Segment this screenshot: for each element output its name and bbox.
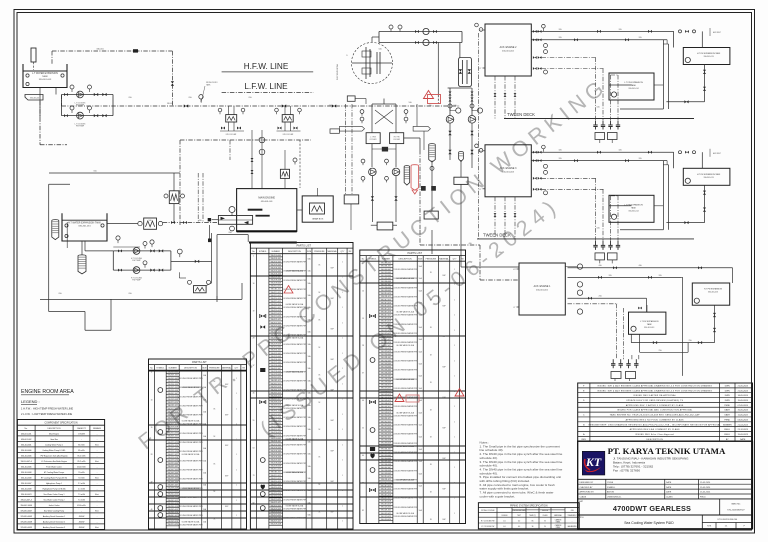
svg-text:H.T WATER EXPANSION TANK: H.T WATER EXPANSION TANK [68,221,101,224]
svg-text:28: 28 [362,345,364,347]
svg-text:37: 37 [253,365,255,367]
svg-text:330-307-007: 330-307-007 [381,284,391,286]
svg-text:SGP: SGP [225,384,228,386]
svg-text:330-332-002: 330-332-002 [381,360,391,362]
svg-text:COOLING FRESH WATER PIPE: COOLING FRESH WATER PIPE [282,315,308,318]
svg-text:4500 m3/h: 4500 m3/h [77,505,86,507]
svg-text:APPROVED REV.0 AS COMMENT BY C: APPROVED REV.0 AS COMMENT BY CLASS [630,428,680,431]
svg-text:330-333-003: 330-333-003 [167,472,177,474]
svg-text:330-312-012: 330-312-012 [381,299,391,301]
svg-text:330-329-029: 330-329-029 [270,344,280,346]
svg-text:TEST: TEST [517,515,521,517]
svg-text:330-344-014: 330-344-014 [167,506,177,508]
svg-text:330-301-003: 330-301-003 [39,79,52,81]
svg-text:GLOBE VALVE 5K-50A: GLOBE VALVE 5K-50A [286,370,304,373]
svg-text:1: 1 [454,406,455,408]
svg-text:1: 1 [342,383,343,385]
svg-text:GLOBE VALVE 5K-50A: GLOBE VALVE 5K-50A [396,411,414,414]
svg-text:330-351-021: 330-351-021 [381,418,391,420]
svg-text:330-306-006: 330-306-006 [381,464,391,466]
svg-text:330-349-019: 330-349-019 [167,521,177,523]
title block: outer frame [578,441,753,529]
svg-text:330-336-006: 330-336-006 [270,365,280,367]
svg-text:37: 37 [362,373,364,375]
svg-text:COOLING FRESH WATER PIPE: COOLING FRESH WATER PIPE [282,343,308,346]
svg-text:DWN: DWN [725,400,730,402]
svg-text:85.2 m3/h: 85.2 m3/h [78,461,86,463]
svg-text:GEAR BOX: GEAR BOX [312,218,324,221]
svg-text:330-300-000: 330-300-000 [381,263,391,265]
svg-text:GLOBE VALVE 5K-50A: GLOBE VALVE 5K-50A [182,386,200,389]
svg-text:1: 1 [342,399,343,401]
svg-text:330-357-027: 330-357-027 [381,437,391,439]
box: central fresh water generator [347,96,355,101]
tank: L.T water expansion tank 330-301-003 [23,64,67,88]
svg-text:PARTS LIST: PARTS LIST [407,251,422,255]
pipe: L.F.W. main line [62,105,461,107]
svg-text:APPROVED REV. 2 AFTER 3 COMMEN: APPROVED REV. 2 AFTER 3 COMMENT BY CLASS [626,404,684,407]
svg-text:370-030-0033: 370-030-0033 [20,527,31,529]
svg-text:330-337-007: 330-337-007 [167,485,177,487]
svg-text:1: 1 [253,255,254,257]
svg-text:TWEEN DECK: TWEEN DECK [483,232,511,237]
svg-text:Elect: Elect [95,476,99,479]
pipe: bottom long return run [40,298,242,300]
pipe: AUX1 to H.T tank 3 [568,267,733,269]
svg-text:330-314-014: 330-314-014 [381,305,391,307]
svg-text:82: 82 [253,502,255,504]
svg-text:330-309-009: 330-309-009 [167,399,177,401]
svg-text:330-339-009: 330-339-009 [167,491,177,493]
svg-text:H.T FW EXPANSION TANK: H.T FW EXPANSION TANK [697,52,721,55]
svg-text:1: 1 [454,498,455,500]
svg-text:46: 46 [253,393,255,395]
svg-text:SGP: SGP [330,329,333,331]
table: parts list C number column entries [379,263,393,265]
svg-text:COOLING FRESH WATER PIPE: COOLING FRESH WATER PIPE [282,352,308,355]
svg-text:330-316-016: 330-316-016 [381,311,391,313]
tank: H.T FW EXPANSION 330-301-013 [692,283,729,305]
svg-text:330-308-008: 330-308-008 [270,280,280,282]
svg-text:F.W COOLER: F.W COOLER [226,134,237,136]
svg-text:PARTS LIST: PARTS LIST [296,244,311,248]
svg-text:SGP: SGP [225,476,228,478]
svg-text:330-301-013: 330-301-013 [703,177,713,179]
svg-text:SGP: SGP [330,451,333,453]
svg-text:AUX. ENGINE 1: AUX. ENGINE 1 [534,285,551,288]
svg-text:330-321-021: 330-321-021 [270,319,280,321]
svg-text:SGP: SGP [330,359,333,361]
svg-text:COOLING FRESH WATER PIPE: COOLING FRESH WATER PIPE [393,332,419,335]
box: AUX. ENGINE 1 430-001-001 [519,263,565,315]
svg-text:330-325-025: 330-325-025 [167,448,177,450]
valve pairs at engine outlet HT [533,30,537,33]
svg-text:HT Cooling Water Pumps (M / E): HT Cooling Water Pumps (M / E) [41,476,68,479]
svg-text:1: 1 [342,490,343,492]
svg-text:NUMBER: NUMBER [169,368,178,370]
svg-text:DWN: DWN [725,385,730,387]
svg-text:330-311-011: 330-311-011 [381,479,391,481]
svg-text:330-304-004: 330-304-004 [167,384,177,386]
svg-text:330-303-003: 330-303-003 [167,381,177,383]
svg-text:COOLING FRESH WATER PIPE: COOLING FRESH WATER PIPE [393,405,419,408]
svg-text:28: 28 [151,454,153,456]
svg-text:GLOBE VALVE 5K-50A: GLOBE VALVE 5K-50A [286,303,304,306]
svg-text:TANK: TANK [631,84,637,87]
svg-text:PEND: PEND [724,405,730,407]
svg-text:330-307-007: 330-307-007 [270,460,280,462]
svg-text:Hydrophore Pump LO M (M): Hydrophore Pump LO M (M) [43,488,66,490]
gauges at engine top-left corner [475,23,479,27]
svg-text:NUMBER: NUMBER [272,251,281,253]
svg-text:330-16-007-4: 330-16-007-4 [21,499,32,501]
thermostatic valve M-box above engine [280,169,289,178]
svg-text:330-301-001: 330-301-001 [381,266,391,268]
svg-text:4700DWT GEARLESS: 4700DWT GEARLESS [613,504,691,513]
svg-text:Elect: Elect [95,460,99,463]
svg-text:FIELD: FIELD [700,497,706,499]
svg-text:330-346-016: 330-346-016 [270,395,280,397]
svg-text:330-339-009: 330-339-009 [381,382,391,384]
svg-text:330-322-022: 330-322-022 [270,505,280,507]
svg-text:MATERIAL: MATERIAL [439,258,448,261]
svg-text:COOLING FRESH WATER PIPE: COOLING FRESH WATER PIPE [178,395,204,398]
svg-text:Fax : (0778) 327690: Fax : (0778) 327690 [613,468,640,472]
svg-text:330-314-014: 330-314-014 [167,414,177,416]
svg-text:COOLING FRESH WATER PIPE: COOLING FRESH WATER PIPE [178,377,204,380]
svg-text:330-304-004: 330-304-004 [270,267,280,269]
svg-text:6.0: 6.0 [518,521,520,523]
svg-text:CLASS: CLASS [666,496,673,499]
riser racetrack loop left of AUX engine 2 [458,60,460,84]
svg-text:Sea Water Cooler Pump 1: Sea Water Cooler Pump 1 [44,493,65,496]
svg-text:F.W PUMP: F.W PUMP [132,260,141,262]
svg-text:GLOBE VALVE 5K-50A: GLOBE VALVE 5K-50A [396,277,414,280]
svg-text:COOLING FRESH WATER PIPE: COOLING FRESH WATER PIPE [178,505,204,508]
svg-text:330-352-022: 330-352-022 [381,421,391,423]
svg-text:KTU-2023/188-F027: KTU-2023/188-F027 [727,510,744,512]
svg-text:SGP: SGP [225,506,228,508]
pipe: tank outlet drops [39,88,41,118]
svg-text:1: 1 [342,505,343,507]
svg-text:430-001-003: 430-001-003 [502,171,515,173]
pump group: H.T cooling F.W pumps manifold [113,250,171,252]
svg-text:330-327-027: 330-327-027 [270,338,280,340]
svg-text:Hydrophore Pump 1: Hydrophore Pump 1 [46,483,62,485]
svg-text:330-345-015: 330-345-015 [381,400,391,402]
svg-text:NTS: NTS [707,526,712,528]
valves on L.F.W. main line [184,104,188,107]
svg-text:DESCRIPTION: DESCRIPTION [48,428,62,430]
svg-text:64: 64 [362,455,364,457]
pipe: parallel feed pair [662,161,664,230]
pipe: ballast pump drops [449,123,451,160]
pipe: L.T tank connections [609,205,632,207]
fittings before H.T tank inlet [679,151,682,154]
gauges on generator loop [389,25,393,29]
pipe: long dash-dot vertical to tween decks [478,33,480,239]
flange connections below deck 1 [595,121,597,126]
svg-text:11-05-2024: 11-05-2024 [738,415,749,417]
svg-text:330-347-017: 330-347-017 [381,406,391,408]
svg-text:55: 55 [253,420,255,422]
svg-text:COOLING FRESH WATER PIPE: COOLING FRESH WATER PIPE [393,387,419,390]
svg-text:330-308-008: 330-308-008 [381,287,391,289]
svg-text:330-340-010: 330-340-010 [381,385,391,387]
svg-text:1: 1 [363,263,364,265]
svg-text:330-308-008: 330-308-008 [381,470,391,472]
svg-text:330-324-024: 330-324-024 [167,445,177,447]
tank: H.T water expansion tank 330-301-015 [62,213,107,241]
svg-text:330-326-026: 330-326-026 [381,342,391,344]
svg-text:330-318-018: 330-318-018 [270,493,280,495]
svg-text:330-335-005: 330-335-005 [381,369,391,371]
svg-text:TEMP (C): TEMP (C) [529,515,536,517]
pump 330-302-003 (H.T No.1) [133,248,140,255]
svg-text:Cooling Water Pump 1: Cooling Water Pump 1 [45,443,63,446]
svg-text:21-04-2024: 21-04-2024 [738,424,749,426]
svg-text:COOLING FRESH WATER PIPE: COOLING FRESH WATER PIPE [393,414,419,417]
svg-text:SYAIFUL: SYAIFUL [607,486,616,489]
pipe: bottom return to engine [666,101,704,103]
svg-text:330-16-0008: 330-16-0008 [21,477,31,479]
svg-text:COOLING FRESH WATER PIPE: COOLING FRESH WATER PIPE [282,398,308,401]
svg-text:330-315-015: 330-315-015 [270,301,280,303]
svg-text:330-310-010: 330-310-010 [270,286,280,288]
svg-text:COOLING FRESH WATER PIPE: COOLING FRESH WATER PIPE [393,359,419,362]
svg-text:330-328-028: 330-328-028 [270,341,280,343]
svg-text:82: 82 [362,510,364,512]
svg-text:330-308-008: 330-308-008 [270,463,280,465]
fittings before H.T tank inlet [679,30,682,33]
svg-text:ISSUED: M/E & AUX ENGINES CLAS: ISSUED: M/E & AUX ENGINES CLASS APPROVAL… [597,384,712,387]
tank: H.T FW EXPANSION TANK 330-301-013 [683,168,730,185]
svg-text:COOLING FRESH WATER PIPE: COOLING FRESH WATER PIPE [282,361,308,364]
svg-text:330-334-004: 330-334-004 [167,475,177,477]
svg-text:SYMBOL: SYMBOL [259,251,267,253]
svg-text:1: 1 [454,330,455,332]
svg-text:LR/BKI/DNV-GL: LR/BKI/DNV-GL [607,497,622,499]
svg-text:L.T WATER EXPANSION: L.T WATER EXPANSION [32,72,58,75]
svg-text:SGP: SGP [330,298,333,300]
svg-text:SGP: SGP [442,489,445,491]
table: parts list C section dividers [360,282,466,284]
svg-text:COOLING FRESH WATER PIPE: COOLING FRESH WATER PIPE [393,268,419,271]
svg-text:7.5 m3/h: 7.5 m3/h [78,499,85,501]
pump group: L.T cooling F.W pumps manifold [62,94,114,96]
heat exchanger M-box right of tank [144,218,157,229]
valve: SDNR on branch 2 [423,39,429,45]
svg-text:330-318-018: 330-318-018 [270,310,280,312]
svg-text:PRESSURE: PRESSURE [314,251,325,253]
svg-text:SGP: SGP [225,445,228,447]
pipe: dash-dot drops to flanges group 3 [616,304,618,359]
svg-text:430-001-001: 430-001-001 [536,290,549,292]
svg-text:330-349-019: 330-349-019 [381,412,391,414]
svg-text:330-356-026: 330-356-026 [381,433,391,435]
svg-text:COOLING FRESH WATER PIPE: COOLING FRESH WATER PIPE [393,323,419,326]
svg-text:SGP: SGP [442,397,445,399]
svg-text:TANK: TANK [647,323,653,326]
svg-text:SGP: SGP [442,458,445,460]
svg-text:1: 1 [454,391,455,393]
svg-text:SGP: SGP [442,275,445,277]
svg-text:H.T FW EXPANSION: H.T FW EXPANSION [704,288,723,291]
tween deck line 2 [477,238,694,240]
svg-text:330-318-018: 330-318-018 [381,318,391,320]
pipe: drops below AUX engine 2 to deck [494,76,496,119]
box: thermometer pocket unit [344,195,359,204]
svg-text:85: 85 [532,521,534,523]
pipe: dash-dot drops to tween deck flanges [595,58,597,121]
pipe: tank vent riser [51,51,53,64]
svg-text:330-16-0008: 330-16-0008 [21,472,31,474]
svg-text:AIR VENT: AIR VENT [713,31,721,34]
svg-text:PEND: PEND [724,419,730,421]
svg-text:APPROVED REV.2 NO FOOD COMMENT: APPROVED REV.2 NO FOOD COMMENT BY CLASS [626,418,684,421]
svg-text:330-302-002: 330-302-002 [167,378,177,380]
svg-text:330-300-000: 330-300-000 [270,255,280,257]
svg-text:330-337-007: 330-337-007 [270,368,280,370]
valve squares [421,186,426,191]
svg-text:330-355-025: 330-355-025 [381,430,391,432]
svg-text:430-001-002: 430-001-002 [502,51,515,53]
svg-text:330-302-002: 330-302-002 [381,269,391,271]
valve pairs at engine outlet LT [533,177,537,180]
svg-text:GLOBE VALVE 5K-50A: GLOBE VALVE 5K-50A [286,404,304,407]
svg-text:GLOBE VALVE 5K-50A: GLOBE VALVE 5K-50A [396,378,414,381]
gauge on L.F.W. main line [199,95,203,99]
svg-text:330-328-028: 330-328-028 [167,457,177,459]
svg-text:330-324-024: 330-324-024 [270,511,280,513]
svg-text:PIPING SYSTEM: PIPING SYSTEM [481,510,495,512]
svg-text:H.F.W. LINE: H.F.W. LINE [244,62,289,71]
table: parts list C column lines [365,256,367,524]
svg-text:1: 1 [342,322,343,324]
svg-text:330-323-023: 330-323-023 [381,516,391,518]
svg-text:330-313-013: 330-313-013 [167,411,177,413]
svg-text:GLOBE VALVE 5K-50A: GLOBE VALVE 5K-50A [182,520,200,523]
strainer capsule (red revision cloud) [411,165,419,191]
svg-text:YUDHI: YUDHI [607,482,614,484]
title block: company logo KT [582,451,605,475]
svg-text:330-348-018: 330-348-018 [270,402,280,404]
svg-text:Main Engine: Main Engine [49,433,59,435]
svg-text:330-322-022: 330-322-022 [270,322,280,324]
pipe: top L.F.W. dash-dot header run [52,50,172,52]
svg-text:HT Cooling Water Pumps: HT Cooling Water Pumps [44,471,64,474]
svg-text:330-327-027: 330-327-027 [167,454,177,456]
svg-text:CAPACITY: CAPACITY [77,427,87,430]
svg-text:F.W COOLER: F.W COOLER [283,134,294,136]
svg-text:COOLING FRESH WATER PIPE: COOLING FRESH WATER PIPE [178,496,204,499]
svg-text:MATERIAL: MATERIAL [328,250,337,253]
svg-text:APPROVED BY: APPROVED BY [580,491,595,494]
pipe: cooler risers to L.F.W. line [228,106,230,115]
M-box auxiliary cooler upper [169,191,179,204]
svg-text:330-302-002: 330-302-002 [270,261,280,263]
svg-text:DESCRIPTION: DESCRIPTION [288,251,302,253]
valve blobs left of cooler [208,218,211,221]
svg-text:330-16-0008: 330-16-0008 [21,488,31,490]
table: parts list A frame [149,359,247,529]
pipe: link coolers to sea suction main [404,137,420,139]
svg-text:330-320-020: 330-320-020 [381,324,391,326]
table: revision history [578,383,753,441]
flange connections below deck 2 [595,241,597,246]
svg-text:SIZE: SIZE [307,251,312,253]
svg-text:07-05-2024: 07-05-2024 [738,405,749,407]
svg-text:330-301-014: 330-301-014 [628,88,638,90]
pipe: AUX1 left side feeds from center [460,230,462,267]
svg-text:SGP: SGP [442,306,445,308]
svg-text:COOLING FRESH WATER PIPE: COOLING FRESH WATER PIPE [178,414,204,417]
svg-text:330-331-001: 330-331-001 [381,357,391,359]
svg-text:GLOBE VALVE 5K-50A: GLOBE VALVE 5K-50A [396,512,414,515]
svg-text:330-001: 330-001 [96,49,104,51]
svg-text:330-330-000: 330-330-000 [167,463,177,465]
svg-text:330-353-023: 330-353-023 [381,424,391,426]
svg-text:SGP: SGP [225,415,228,417]
svg-text:Cooling Water Pump LO HFL: Cooling Water Pump LO HFL [42,449,65,452]
svg-text:COOLING FRESH WATER PIPE: COOLING FRESH WATER PIPE [178,450,204,453]
svg-text:1: 1 [236,393,237,395]
svg-text:330-359-029: 330-359-029 [270,435,280,437]
drain capsule below tank [78,255,86,274]
svg-text:SGP: SGP [442,336,445,338]
tank: L.T FW EXPANSION TANK 330-301-014 [609,73,654,100]
svg-text:Sea Water Cooling Pump: Sea Water Cooling Pump [44,509,64,512]
svg-text:1: 1 [454,437,455,439]
svg-text:330-331-001: 330-331-001 [167,466,177,468]
svg-text:10: 10 [151,399,153,401]
svg-text:DWN: DWN [725,390,730,392]
svg-text:DESCRIPTION: DESCRIPTION [646,439,663,441]
svg-text:46: 46 [151,509,153,511]
svg-text:1: 1 [454,315,455,317]
svg-text:PARTS LIST: PARTS LIST [192,360,207,364]
svg-text:21-12-2023: 21-12-2023 [738,429,749,431]
svg-text:TWEEN DECK: TWEEN DECK [507,112,535,117]
svg-text:PT. KARYA TEKNIK UTAMA: PT. KARYA TEKNIK UTAMA [608,446,726,456]
svg-text:GLOBE VALVE 5K-50A: GLOBE VALVE 5K-50A [396,445,414,448]
svg-text:1: 1 [236,408,237,410]
pipe: L.T dash-dot lines to tween deck risers [542,177,597,179]
pipe: generator cooling loop (two branches with SDNR valves) [379,31,462,33]
table: parts list B number column entries [269,256,283,258]
svg-text:COOLING FRESH WATER PIPE: COOLING FRESH WATER PIPE [178,404,204,407]
svg-text:330-335-005: 330-335-005 [167,478,177,480]
svg-text:1: 1 [342,353,343,355]
svg-text:46: 46 [362,400,364,402]
svg-text:ENGINE ROOM AREA: ENGINE ROOM AREA [21,389,74,395]
valve/gauge cluster above main engine [251,130,253,188]
tag box: from sea chest [330,129,339,133]
svg-text:No: No [252,251,254,253]
svg-text:330-301-013: 330-301-013 [644,327,654,329]
svg-text:19: 19 [151,427,153,429]
svg-text:330-307-007: 330-307-007 [270,277,280,279]
svg-text:KT: KT [585,455,602,469]
gauges at engine top-left corner [475,144,479,148]
svg-text:330-300-000: 330-300-000 [167,372,177,374]
pipe: vertical pair mid [416,104,418,126]
svg-text:2.1 m3/h: 2.1 m3/h [78,483,85,485]
svg-text:1: 1 [454,299,455,301]
svg-text:330-332-002: 330-332-002 [270,353,280,355]
svg-text:330-309-009: 330-309-009 [270,283,280,285]
svg-text:COOLING FRESH WATER PIPE: COOLING FRESH WATER PIPE [282,334,308,337]
